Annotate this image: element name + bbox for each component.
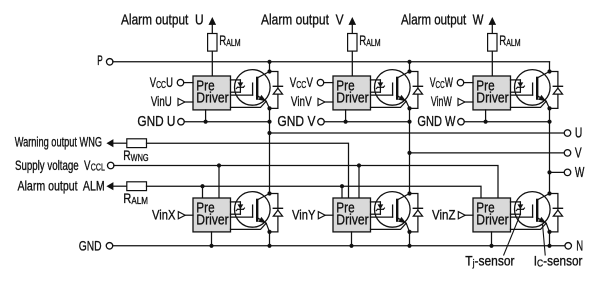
IGBT gate lead V: [371, 94, 393, 96]
svg-text:GND V: GND V: [277, 113, 315, 129]
svg-text:RALM: RALM: [219, 32, 240, 48]
ALM output arrow: [106, 182, 113, 190]
U output rail: [270, 132, 565, 134]
emitter Z wire to N rail: [549, 232, 551, 246]
V terminal label: [575, 145, 582, 161]
svg-text:Warning output WNG: Warning output WNG: [15, 135, 102, 150]
junction dot P rail phase U: [267, 60, 271, 64]
Ic-sensor callout line: [543, 225, 546, 255]
svg-text:Driver: Driver: [196, 89, 229, 105]
freewheel diode symbol Y: [413, 207, 422, 209]
svg-text:Alarm output V: Alarm output V: [261, 11, 344, 27]
IGBT collector lead X: [257, 194, 269, 200]
freewheel diode bracket U: [270, 72, 278, 109]
svg-text:IC-sensor: IC-sensor: [534, 253, 583, 269]
collector node dot X: [267, 191, 271, 195]
svg-text:Alarm output W: Alarm output W: [401, 11, 484, 28]
V output rail: [410, 152, 565, 154]
WNG output arrow: [106, 139, 113, 147]
Tj sense diode (zener) U: [231, 79, 241, 81]
wire resistor RALM U to pre-driver: [211, 51, 213, 76]
pre-driver UX box: [193, 198, 231, 232]
VccV label: [290, 74, 313, 90]
svg-text:VinW: VinW: [431, 95, 452, 109]
freewheel diode symbol Z: [553, 207, 562, 209]
N terminal: [565, 243, 572, 250]
ALM drop to driver X: [202, 186, 204, 198]
svg-text:VinX: VinX: [152, 207, 176, 222]
svg-text:VCCU: VCCU: [150, 75, 173, 90]
junction dot GND V at phase line: [407, 120, 411, 124]
emitter node dot V: [407, 106, 411, 110]
RWNG value label: [123, 148, 148, 164]
freewheel diode bracket Y: [410, 194, 418, 232]
IGBT emitter lead with arrow U: [257, 95, 270, 108]
IGBT gate lead U: [231, 94, 253, 96]
collector node dot W: [547, 69, 551, 73]
alarm output V arrow: [349, 17, 357, 25]
junction dot N rail phase Z: [547, 244, 551, 248]
Alarm output U label: [121, 11, 204, 27]
junction dot N rail phase Y: [407, 244, 411, 248]
W terminal: [564, 169, 571, 176]
W terminal label: [575, 164, 585, 180]
Tj sense diode (zener) V: [371, 79, 381, 81]
junction dot V rail: [407, 151, 411, 155]
emitter sense line W: [511, 101, 547, 107]
emitter node dot W: [547, 106, 551, 110]
junction dot U rail: [267, 131, 271, 135]
W output rail: [550, 171, 565, 173]
IGBT body bar W: [536, 78, 538, 99]
IGBT gate lead Y: [371, 216, 393, 218]
IGBT emitter lead with arrow X: [257, 217, 270, 232]
IGBT body bar Z: [536, 200, 538, 221]
collector node dot Y: [407, 191, 411, 195]
svg-text:VCCV: VCCV: [290, 74, 313, 90]
GND U rail: [184, 121, 269, 123]
svg-text:RALM: RALM: [499, 32, 520, 48]
IGBT circle Y: [375, 192, 411, 228]
junction dot GND U below driver: [204, 120, 208, 124]
RALM V value label: [359, 32, 380, 48]
svg-text:U: U: [575, 125, 582, 141]
collector node dot V: [407, 69, 411, 73]
Tj-sensor label: [465, 253, 515, 269]
VinW label: [431, 95, 452, 109]
IGBT emitter lead with arrow V: [397, 95, 410, 108]
junction dot ALM X: [200, 184, 204, 188]
IGBT circle W: [515, 70, 551, 106]
driver Y ground-return vertical: [351, 232, 353, 246]
P terminal: [106, 59, 113, 66]
U terminal label: [575, 125, 582, 141]
IGBT collector lead U: [257, 72, 269, 78]
svg-text:VinY: VinY: [292, 207, 316, 222]
VccV terminal: [317, 79, 324, 86]
IGBT collector lead V: [397, 72, 409, 78]
freewheel diode bracket X: [270, 194, 278, 232]
VccW label: [430, 76, 453, 90]
RALM U value label: [219, 32, 240, 48]
svg-text:VCCW: VCCW: [430, 76, 453, 90]
V terminal: [564, 150, 571, 157]
GND V terminal: [318, 118, 325, 125]
emitter node dot X: [267, 230, 271, 234]
emitter sense line X: [231, 223, 267, 229]
emitter node dot Y: [407, 230, 411, 234]
collector drop wire V: [409, 62, 411, 72]
Ic-sensor label: [534, 253, 583, 269]
IGBT body bar U: [256, 78, 258, 99]
svg-text:GND W: GND W: [417, 112, 456, 129]
Alarm output ALM label: [18, 178, 105, 194]
emitter sense line V: [371, 101, 407, 107]
U terminal: [564, 130, 571, 137]
Tj sense diode (zener) W: [511, 79, 521, 81]
IGBT collector lead Z: [537, 194, 549, 200]
VinU input triangle: [178, 98, 185, 105]
ALM drop to driver Y: [341, 186, 343, 198]
freewheel diode symbol W: [553, 85, 562, 87]
GND W label: [417, 112, 456, 129]
N terminal label: [576, 238, 583, 255]
phase W vertical wire: [549, 108, 551, 193]
IGBT circle Z: [515, 192, 551, 228]
GND U terminal: [178, 118, 185, 125]
junction dot ALM Y: [340, 184, 344, 188]
Tj-sensor callout line: [504, 214, 521, 255]
wire alarm arrow W to resistor: [491, 25, 493, 34]
junction dot GND W below driver: [484, 120, 488, 124]
VCCL drop to driver Y: [358, 166, 360, 199]
freewheel diode bracket V: [410, 72, 418, 109]
pre-driver UU box: [193, 76, 231, 110]
wire ALM arrow to resistor: [113, 185, 126, 187]
svg-text:VinV: VinV: [291, 93, 312, 109]
junction dot N rail below driver Z: [489, 244, 493, 248]
GND terminal: [106, 243, 113, 250]
GND V rail: [324, 121, 409, 123]
VinW input triangle: [458, 98, 465, 105]
emitter node dot U: [267, 106, 271, 110]
VinX input triangle: [178, 212, 185, 219]
resistor RALM V (vertical): [348, 34, 357, 52]
VinY label: [292, 207, 316, 222]
junction dot GND V below driver: [344, 120, 348, 124]
alarm output W arrow: [489, 17, 497, 25]
phase V vertical wire: [409, 108, 411, 193]
resistor RALM U (vertical): [208, 34, 217, 52]
svg-text:V: V: [575, 145, 582, 161]
collector drop wire W: [549, 62, 551, 72]
VccU terminal: [177, 79, 184, 86]
junction dot N rail below driver Y: [349, 244, 353, 248]
emitter node dot Z: [547, 230, 551, 234]
driver X ground-return vertical: [211, 232, 213, 246]
junction dot N rail below driver X: [209, 244, 213, 248]
emitter X wire to N rail: [269, 232, 271, 246]
freewheel diode symbol X: [273, 207, 282, 209]
svg-text:VinU: VinU: [151, 93, 172, 109]
VinY input triangle: [318, 212, 325, 219]
N rail wire: [113, 245, 565, 247]
RALM W value label: [499, 32, 520, 48]
pre-driver UY box: [333, 198, 371, 232]
svg-text:Driver: Driver: [196, 211, 229, 227]
VCCL supply wire: [114, 166, 498, 199]
junction dot GND U at phase line: [267, 120, 271, 124]
IGBT body bar Y: [396, 200, 398, 221]
pre-driver UW box: [473, 76, 511, 110]
wire alarm arrow V to resistor: [351, 25, 353, 34]
svg-text:Driver: Driver: [476, 211, 509, 227]
Tj sense diode (zener) Y: [371, 201, 381, 203]
VinZ input triangle: [458, 212, 465, 219]
driver Z ground-return vertical: [491, 232, 493, 246]
IGBT gate lead W: [511, 94, 533, 96]
wire resistor RALM V to pre-driver: [351, 51, 353, 76]
junction dot P rail phase V: [407, 60, 411, 64]
junction dot W rail: [547, 170, 551, 174]
GND W rail: [464, 121, 549, 123]
GND U label: [137, 113, 175, 129]
freewheel diode symbol U: [273, 85, 282, 87]
IGBT emitter lead with arrow W: [537, 95, 550, 108]
freewheel diode bracket Z: [550, 194, 558, 232]
alarm output U arrow: [209, 17, 217, 25]
svg-text:Alarm output ALM: Alarm output ALM: [18, 178, 105, 194]
P rail wire: [113, 61, 550, 63]
RALM lower value label: [123, 191, 148, 206]
resistor RALM (horizontal): [127, 182, 147, 191]
IGBT gate bar Z: [532, 205, 534, 217]
ALM wire to driver Z: [147, 186, 482, 198]
emitter sense line Z: [511, 223, 547, 229]
Warning output WNG label: [15, 135, 102, 150]
svg-text:RALM: RALM: [359, 32, 380, 48]
junction dot VCCL X: [217, 163, 221, 167]
IGBT collector lead Y: [397, 194, 409, 200]
svg-text:RWNG: RWNG: [123, 148, 148, 164]
Supply voltage VCCL label: [15, 157, 105, 173]
Tj sense diode (zener) Z: [511, 201, 521, 203]
IGBT circle V: [375, 70, 411, 106]
IGBT circle U: [235, 70, 271, 106]
GND W gate-return vertical: [485, 110, 487, 122]
VinV input triangle: [318, 98, 325, 105]
svg-text:Driver: Driver: [336, 89, 369, 105]
resistor RWNG (horizontal): [127, 139, 147, 148]
emitter sense line Y: [371, 223, 407, 229]
junction dot GND W at phase line: [547, 120, 551, 124]
WNG wire to driver Y: [147, 143, 349, 198]
wire resistor RALM W to pre-driver: [491, 51, 493, 76]
IGBT gate bar U: [252, 83, 254, 95]
VinU label: [151, 93, 172, 109]
svg-text:Alarm output U: Alarm output U: [121, 11, 204, 27]
freewheel diode bracket W: [550, 72, 558, 109]
IGBT gate bar X: [252, 205, 254, 217]
pre-driver UZ box: [473, 198, 511, 232]
wire WNG arrow to resistor: [113, 142, 126, 144]
svg-text:RALM: RALM: [123, 191, 148, 206]
VinZ label: [432, 207, 456, 222]
Tj sense diode (zener) X: [231, 201, 241, 203]
GND W terminal: [458, 118, 465, 125]
svg-text:P: P: [97, 54, 102, 69]
emitter Y wire to N rail: [409, 232, 411, 246]
svg-text:W: W: [575, 164, 585, 180]
IGBT emitter lead with arrow Y: [397, 217, 410, 232]
pre-driver UV box: [333, 76, 371, 110]
emitter sense line U: [231, 101, 267, 107]
collector drop wire U: [269, 62, 271, 72]
phase U vertical wire: [269, 108, 271, 193]
collector node dot Z: [547, 191, 551, 195]
VCCL drop to driver X: [218, 166, 220, 199]
P terminal label: [97, 54, 102, 69]
VCCL terminal: [107, 162, 114, 169]
IGBT gate lead Z: [511, 216, 533, 218]
collector node dot U: [267, 69, 271, 73]
GND V gate-return vertical: [345, 110, 347, 122]
IGBT gate bar V: [392, 83, 394, 95]
IGBT body bar V: [396, 78, 398, 99]
resistor RALM W (vertical): [488, 34, 497, 52]
IGBT gate bar Y: [392, 205, 394, 217]
IGBT collector lead W: [537, 72, 549, 78]
Alarm output V label: [261, 11, 344, 27]
junction dot VCCL Y: [357, 163, 361, 167]
svg-text:Driver: Driver: [336, 211, 369, 227]
IGBT gate bar W: [532, 83, 534, 95]
junction dot N rail phase X: [267, 244, 271, 248]
svg-text:GND: GND: [79, 238, 102, 254]
IGBT body bar X: [256, 200, 258, 221]
IGBT circle X: [235, 192, 271, 228]
GND U gate-return vertical: [205, 110, 207, 122]
Alarm output W label: [401, 11, 484, 28]
GND terminal label: [79, 238, 102, 254]
VccU label: [150, 75, 173, 90]
svg-text:Supply voltage VCCL: Supply voltage VCCL: [15, 157, 105, 173]
GND V label: [277, 113, 315, 129]
wire alarm arrow U to resistor: [211, 25, 213, 34]
VinV label: [291, 93, 312, 109]
IGBT gate lead X: [231, 216, 253, 218]
svg-text:Driver: Driver: [476, 89, 509, 105]
freewheel diode symbol V: [413, 85, 422, 87]
IGBT emitter lead with arrow Z: [537, 217, 550, 232]
svg-text:VinZ: VinZ: [432, 207, 456, 222]
VinX label: [152, 207, 176, 222]
svg-text:Tj-sensor: Tj-sensor: [465, 253, 515, 269]
VccW terminal: [457, 79, 464, 86]
svg-text:GND U: GND U: [137, 113, 175, 129]
